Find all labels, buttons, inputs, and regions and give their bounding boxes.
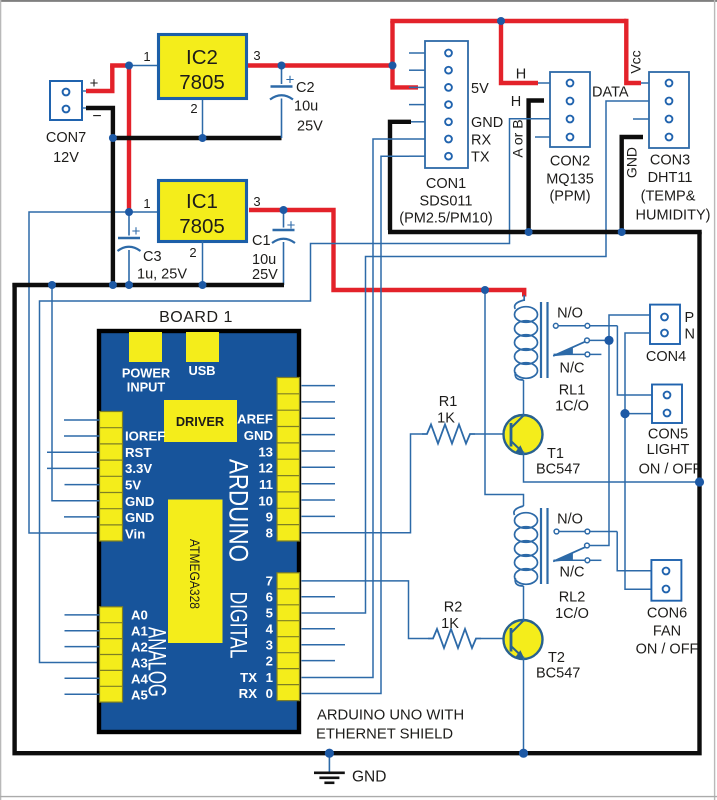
wire Arduino D8 to R1 <box>302 434 423 533</box>
board Arduino Uno BOARD1 <box>99 331 299 732</box>
svg-text:A2: A2 <box>131 640 148 655</box>
capacitor C2 <box>270 66 323 139</box>
node ground bus at CON2 <box>525 228 533 236</box>
svg-text:7805: 7805 <box>179 71 225 94</box>
node N line at CON5 <box>620 409 629 418</box>
node ground bus at CON7 <box>109 281 117 289</box>
wire CON2 A-or-B to Arduino A3 <box>40 119 551 663</box>
wire IC1 pin2 to ground bus <box>202 241 204 285</box>
relay RL2 N/C contact <box>554 558 602 581</box>
node ground bus at IC1 pin2 <box>199 281 207 289</box>
svg-text:8: 8 <box>266 526 273 541</box>
node ground under IC2 <box>109 134 117 142</box>
node ground symbol tap <box>325 749 334 758</box>
node ground bus at CON3 <box>618 228 626 236</box>
svg-text:2: 2 <box>266 654 273 669</box>
svg-text:ETHERNET SHIELD: ETHERNET SHIELD <box>316 727 453 743</box>
wire ground bus upper-right <box>388 230 702 234</box>
relay RL2 pole <box>553 543 589 561</box>
transistor T2 BC547 <box>504 620 581 682</box>
svg-text:7805: 7805 <box>179 215 225 238</box>
svg-text:Vcc: Vcc <box>628 50 644 73</box>
node 5V riser <box>389 62 397 70</box>
relay RL2 core <box>540 508 542 584</box>
svg-text:H: H <box>516 67 526 83</box>
svg-text:(PM2.5/PM10): (PM2.5/PM10) <box>399 211 492 227</box>
wire T1 emitter to ground border <box>524 452 700 483</box>
svg-text:1: 1 <box>266 670 273 685</box>
wire +12V rail down to IC1 input node <box>127 63 131 212</box>
svg-text:GND: GND <box>352 769 386 786</box>
capacitor C3 <box>118 212 188 285</box>
relay RL1 coil <box>515 300 538 380</box>
svg-text:+: + <box>286 72 295 89</box>
pin stubs right digital lower <box>302 597 346 661</box>
svg-text:11: 11 <box>259 477 273 492</box>
node ground bus at C3 <box>125 281 133 289</box>
svg-text:1C/O: 1C/O <box>555 606 589 622</box>
wire N branch to CON5 pin2 <box>625 413 652 415</box>
svg-text:C3: C3 <box>143 249 162 265</box>
labels analog pins <box>131 608 149 703</box>
svg-text:1: 1 <box>143 196 150 211</box>
capacitor C1 <box>252 210 296 285</box>
svg-text:IC2: IC2 <box>186 46 218 69</box>
wire Vcc drop to CON2 H <box>501 19 538 83</box>
node 5V at RL2 branch <box>481 286 489 294</box>
svg-text:BC547: BC547 <box>536 666 580 682</box>
svg-text:5V: 5V <box>125 478 141 493</box>
svg-text:CON6: CON6 <box>647 606 687 622</box>
svg-text:ARDUINO UNO WITH: ARDUINO UNO WITH <box>317 708 464 724</box>
node IC1 output at C1 <box>280 206 288 214</box>
node IC2 pin2 ground <box>199 134 207 142</box>
wire ground segment under IC2 <box>111 136 282 140</box>
svg-text:ARDUINO: ARDUINO <box>223 459 253 562</box>
svg-text:1C/O: 1C/O <box>555 399 589 415</box>
wire T2 emitter to ground bus <box>523 657 525 754</box>
svg-text:GND: GND <box>125 510 154 525</box>
connector CON3 DHT11 <box>633 72 710 224</box>
relay RL1 core <box>540 302 542 378</box>
wire IC1 output 5V to relays <box>249 210 524 297</box>
svg-text:A0: A0 <box>131 608 148 623</box>
svg-text:4: 4 <box>266 622 274 637</box>
svg-text:DRIVER: DRIVER <box>176 414 224 429</box>
svg-text:TX: TX <box>240 670 257 685</box>
svg-text:3: 3 <box>266 638 273 653</box>
wire CON3 DATA to Arduino D5 <box>302 101 650 613</box>
svg-text:HUMIDITY): HUMIDITY) <box>636 208 711 224</box>
pin stubs right digital upper <box>302 386 336 517</box>
svg-text:GND: GND <box>471 115 503 131</box>
svg-text:CON2: CON2 <box>550 154 590 170</box>
svg-text:6: 6 <box>266 590 273 605</box>
svg-text:Vin: Vin <box>125 527 145 542</box>
svg-text:DIGITAL: DIGITAL <box>225 592 252 659</box>
svg-text:CON4: CON4 <box>646 349 686 365</box>
wire RL1 N/O to CON5 <box>617 326 652 395</box>
svg-text:10u: 10u <box>252 252 276 268</box>
svg-text:N/C: N/C <box>560 565 585 581</box>
connector CON6 <box>636 560 699 658</box>
svg-text:TX: TX <box>471 150 490 166</box>
resistor R2 1K <box>428 600 509 649</box>
relay RL1 pole <box>553 338 609 356</box>
header left analog pins <box>100 607 123 702</box>
svg-text:RX: RX <box>471 133 491 149</box>
svg-text:T1: T1 <box>547 446 564 462</box>
svg-text:AREF: AREF <box>237 412 273 427</box>
connector POWER INPUT block <box>129 332 162 362</box>
connector USB block <box>186 332 219 362</box>
wire CON1 GND to ground bus <box>390 122 411 230</box>
svg-text:5V: 5V <box>471 81 489 97</box>
wire +12V from CON7 plus to IC2 input node <box>86 66 112 92</box>
svg-text:N/O: N/O <box>557 512 583 528</box>
svg-text:T2: T2 <box>548 650 565 666</box>
svg-text:POWER: POWER <box>122 366 170 381</box>
svg-text:1u, 25V: 1u, 25V <box>137 267 187 283</box>
svg-text:USB: USB <box>188 363 215 378</box>
node 5V rail at CON2 <box>497 17 505 25</box>
regulator IC2 7805 <box>143 35 260 117</box>
svg-text:0: 0 <box>266 686 273 701</box>
wire Arduino D7 to R2 <box>302 581 429 639</box>
svg-text:P: P <box>685 310 695 326</box>
svg-text:A3: A3 <box>131 656 148 671</box>
relay RL1 N/C contact <box>554 352 602 377</box>
svg-text:5: 5 <box>266 606 273 621</box>
svg-text:3.3V: 3.3V <box>125 461 152 476</box>
svg-text:MQ135: MQ135 <box>546 172 594 188</box>
wire RL1 pole to CON4 P and RL2 pole <box>589 315 650 546</box>
relay RL2 N/O contact <box>554 512 617 534</box>
svg-text:13: 13 <box>258 445 273 460</box>
wire CON4 N to CON5 and CON6 <box>625 333 651 589</box>
wire node to IC1 pin1 <box>129 211 157 213</box>
svg-text:FAN: FAN <box>653 624 681 640</box>
header right digital upper pins <box>277 378 300 542</box>
wire 5V drop to CON1 <box>393 63 419 87</box>
connector CON1 SDS011 <box>399 41 503 227</box>
wire CON7 minus to ground bus <box>86 108 113 285</box>
svg-text:RX: RX <box>239 686 258 701</box>
header right digital lower pins <box>277 573 300 701</box>
svg-text:H: H <box>511 94 521 110</box>
wire CON1 TX to Arduino RX0 <box>302 156 410 693</box>
connector CON2 MQ135 <box>535 72 594 205</box>
svg-text:INPUT: INPUT <box>127 380 166 395</box>
wire 5V top rail <box>390 19 626 23</box>
svg-text:3: 3 <box>253 194 260 209</box>
svg-text:ON / OFF: ON / OFF <box>636 642 699 658</box>
pin stubs left analog header <box>65 615 100 694</box>
svg-text:(PPM): (PPM) <box>549 189 590 205</box>
wire 5V riser to top rail <box>390 21 394 66</box>
svg-text:12: 12 <box>258 461 273 476</box>
relay RL1 N/O contact <box>553 306 617 329</box>
svg-text:10: 10 <box>258 494 273 509</box>
svg-text:1: 1 <box>143 49 150 64</box>
svg-text:LIGHT: LIGHT <box>647 442 690 458</box>
svg-text:IC1: IC1 <box>186 190 218 213</box>
chip DRIVER <box>164 400 237 442</box>
svg-text:N: N <box>685 327 695 343</box>
svg-text:10u: 10u <box>294 99 318 115</box>
svg-text:3: 3 <box>253 48 260 63</box>
svg-text:ON / OFF: ON / OFF <box>639 462 702 478</box>
wire RL2 N/O to CON6 <box>617 532 651 571</box>
svg-text:C2: C2 <box>296 80 315 96</box>
ground symbol <box>314 755 386 786</box>
wire ground border left-bottom-right <box>15 232 700 753</box>
svg-text:C1: C1 <box>252 233 271 249</box>
svg-text:R2: R2 <box>444 600 463 616</box>
svg-text:9: 9 <box>266 510 273 525</box>
node +12V at IC2 input <box>125 62 133 70</box>
node T2 emitter at ground bus <box>519 749 528 758</box>
svg-text:IOREF: IOREF <box>125 429 165 444</box>
svg-text:RST: RST <box>125 445 151 460</box>
node RL1 pole junction <box>604 336 613 345</box>
connector CON4 <box>646 305 695 365</box>
resistor R1 1K <box>422 394 509 444</box>
node IC2 output at C2 <box>278 62 286 70</box>
wire node +12V to IC2 pin1 <box>129 65 157 67</box>
svg-text:7: 7 <box>266 574 273 589</box>
svg-text:A or B: A or B <box>510 119 526 157</box>
svg-text:−: − <box>92 108 101 125</box>
svg-text:+: + <box>287 217 296 234</box>
svg-text:SDS011: SDS011 <box>420 194 473 210</box>
svg-text:DHT11: DHT11 <box>648 170 693 186</box>
svg-text:(TEMP&: (TEMP& <box>641 189 696 205</box>
svg-text:CON5: CON5 <box>648 427 688 443</box>
svg-text:N/C: N/C <box>560 361 585 377</box>
wire CON2 H2 to ground bus <box>529 101 544 233</box>
svg-text:ATMEGA328: ATMEGA328 <box>187 539 202 609</box>
regulator IC1 7805 <box>143 181 260 261</box>
svg-text:DATA: DATA <box>592 85 629 101</box>
wire T2 collector to RL2 coil <box>523 586 525 622</box>
svg-text:CON7: CON7 <box>46 130 86 146</box>
svg-text:BC547: BC547 <box>536 462 580 478</box>
svg-text:CON1: CON1 <box>426 176 466 192</box>
wire CON3 GND to ground bus <box>622 137 643 232</box>
svg-text:CON3: CON3 <box>650 153 690 169</box>
pin stubs left power header <box>47 420 100 517</box>
svg-text:RL1: RL1 <box>559 383 586 399</box>
node +12V at IC1 input <box>125 208 133 216</box>
wire IC2 output 5V <box>248 63 393 67</box>
svg-text:A5: A5 <box>131 688 148 703</box>
header left power pins <box>100 412 123 542</box>
svg-text:25V: 25V <box>252 267 278 283</box>
svg-text:2: 2 <box>189 245 196 260</box>
svg-text:12V: 12V <box>53 150 79 166</box>
svg-text:R1: R1 <box>439 394 458 410</box>
transistor T1 BC547 <box>504 415 581 478</box>
svg-text:A1: A1 <box>131 624 148 639</box>
wire Arduino GND pin to ground bus <box>52 285 100 501</box>
labels right digital upper <box>237 412 273 541</box>
svg-text:25V: 25V <box>297 119 323 135</box>
svg-text:GND: GND <box>624 147 640 178</box>
wire T1 collector to RL1 coil <box>523 380 525 417</box>
svg-text:BOARD 1: BOARD 1 <box>159 309 233 326</box>
svg-text:+: + <box>132 223 141 240</box>
svg-text:RL2: RL2 <box>559 590 586 606</box>
svg-text:GND: GND <box>125 494 154 509</box>
svg-text:1K: 1K <box>437 411 455 427</box>
chip ATMEGA328 <box>168 500 223 644</box>
connector CON7 <box>46 75 102 166</box>
wire 5V branch to RL2 coil <box>485 290 524 506</box>
labels left power pins <box>125 429 165 542</box>
node ground bus at GND wire <box>48 281 56 289</box>
labels right digital lower <box>239 574 274 702</box>
connector CON5 <box>639 385 702 478</box>
svg-text:GND: GND <box>244 428 273 443</box>
wire IC2 pin2 to ground segment <box>202 100 204 138</box>
svg-text:A4: A4 <box>131 672 149 687</box>
wire Vcc drop to CON3 <box>626 19 641 83</box>
node T1 emitter at ground border <box>695 477 704 486</box>
svg-text:N/O: N/O <box>557 306 583 322</box>
wire CON1 RX to Arduino TX1 <box>302 139 410 678</box>
relay RL2 coil <box>514 506 538 586</box>
svg-text:2: 2 <box>190 101 197 116</box>
wire +12V to Arduino Vin <box>29 212 129 533</box>
svg-text:1K: 1K <box>441 616 459 632</box>
wire ground bus upper-left <box>12 283 284 287</box>
